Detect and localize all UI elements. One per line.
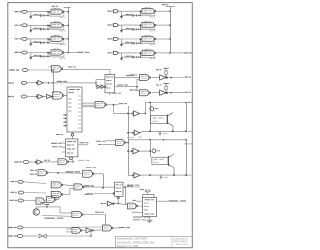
svg-text:Generated with 1.08 B-76897: Generated with 1.08 B-76897	[117, 238, 148, 241]
svg-text:PGS 3 OF 5: PGS 3 OF 5	[176, 244, 189, 246]
svg-text:Dwg-dst 777-L-70/34: Dwg-dst 777-L-70/34	[117, 245, 139, 248]
svg-text:84060-74/8/74: 84060-74/8/74	[174, 241, 188, 243]
svg-text:SUDS 56-87 L-07878Z 30755L 23L: SUDS 56-87 L-07878Z 30755L 23L0	[117, 242, 155, 244]
